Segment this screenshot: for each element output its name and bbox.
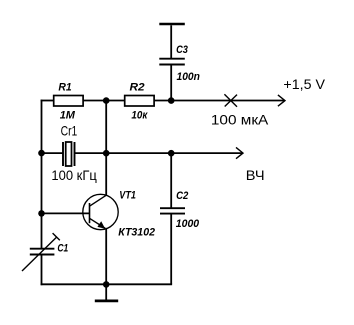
svg-text:10к: 10к [131,109,148,121]
wire: left vertical rail (top rail down to C1 top plate) [41,100,43,249]
wire: middle rail (crystal to output arrow) [75,152,243,154]
wire: R2 to supply arrow [154,100,285,102]
node: left rail / crystal junction [38,150,45,157]
wire: base (left rail to transistor base) [41,212,90,214]
svg-text:R1: R1 [58,81,71,93]
wire: bottom rail [41,283,173,285]
output arrow head [236,147,243,158]
svg-text:1000: 1000 [176,218,200,230]
capacitor C1 (trimmer) [22,233,60,271]
resistor R2 [125,96,154,107]
svg-text:C3: C3 [176,44,188,56]
supply arrow head [278,95,285,106]
transistor VT1 [83,194,118,229]
wire: emitter (transistor to bottom rail) [105,229,107,285]
wire: left vertical rail below C1 [41,255,43,286]
svg-text:C1: C1 [57,243,68,255]
wire: middle rail left (left rail to crystal) [41,152,63,154]
wire: collector (middle rail down to transistor) [105,153,107,195]
ground [95,284,118,301]
node: R1-R2-collector junction [103,97,110,104]
ammeter break symbol (current measuring point) [224,94,237,106]
svg-text:VT1: VT1 [119,190,136,202]
node: emitter / bottom rail / ground junction [103,281,110,288]
svg-text:R2: R2 [130,82,145,94]
capacitor C3 [159,24,185,101]
svg-text:100 кГц: 100 кГц [51,167,96,183]
svg-text:+1,5 V: +1,5 V [283,76,325,92]
wire: top rail left stub to R1 [41,100,54,102]
svg-text:1M: 1M [60,110,76,122]
node: base / left rail junction [38,210,45,217]
node: middle vertical / crystal junction [103,150,110,157]
crystal Cr1 [63,142,75,166]
svg-text:C2: C2 [176,190,188,202]
svg-text:Cr1: Cr1 [61,122,78,138]
svg-text:100 мкА: 100 мкА [211,112,269,128]
svg-text:100n: 100n [177,71,201,83]
wire: middle vertical (top rail to middle rail) [105,101,107,154]
node: C2 / output junction [168,150,175,157]
svg-text:ВЧ: ВЧ [246,167,265,183]
resistor R1 [54,96,83,107]
node: C3 junction on top rail [168,97,175,104]
capacitor C2 [160,153,185,284]
svg-text:КТ3102: КТ3102 [118,227,155,239]
wire: R1 to R2 [83,100,125,102]
